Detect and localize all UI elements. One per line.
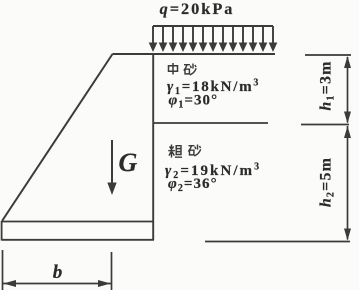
svg-text:φ1=30°: φ1=30° (169, 93, 219, 111)
svg-text:b: b (53, 262, 63, 283)
svg-text:φ2=36°: φ2=36° (168, 176, 218, 194)
svg-text:G: G (119, 148, 138, 177)
svg-text:h1=3m: h1=3m (318, 60, 337, 110)
svg-text:h2=5m: h2=5m (318, 157, 337, 207)
svg-text:q=20kPa: q=20kPa (160, 0, 235, 18)
